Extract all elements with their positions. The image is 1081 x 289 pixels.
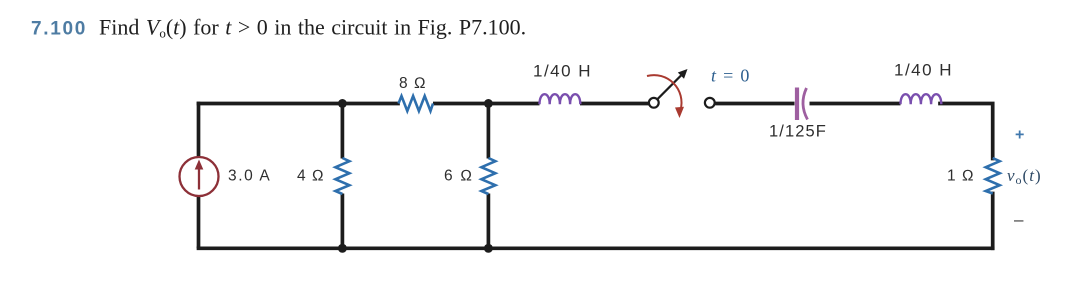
- wire top between capacitor and inductor L2: [810, 102, 901, 106]
- wire bottom rail: [199, 246, 993, 250]
- svg-text:6 Ω: 6 Ω: [444, 168, 474, 185]
- wire 6ohm branch lower: [487, 194, 491, 249]
- svg-text:t = 0: t = 0: [711, 66, 751, 86]
- svg-text:vo(t): vo(t): [1007, 166, 1042, 187]
- inductor L1 1/40 H: [540, 94, 581, 104]
- wire left below current source: [197, 197, 201, 249]
- wire top-left segment: [199, 102, 399, 106]
- svg-text:1/40 H: 1/40 H: [533, 62, 592, 81]
- svg-text:1/40 H: 1/40 H: [894, 61, 953, 80]
- wire top-right corner segment: [940, 104, 993, 159]
- svg-text:+: +: [1015, 127, 1024, 144]
- resistor 8ohm: [399, 96, 434, 111]
- svg-text:–: –: [1014, 210, 1024, 229]
- wire top between switch and capacitor: [715, 102, 794, 106]
- svg-text:7.100: 7.100: [31, 18, 87, 39]
- switch t=0: [647, 69, 715, 118]
- resistor 1ohm: [986, 158, 1000, 194]
- wire top between L1 and switch: [580, 102, 649, 106]
- wire right below 1ohm resistor: [991, 194, 995, 249]
- node dot top of 4ohm branch: [338, 99, 347, 108]
- node dot top of 6ohm branch: [484, 99, 493, 108]
- svg-text:1/125F: 1/125F: [769, 123, 827, 141]
- svg-text:3.0 A: 3.0 A: [228, 168, 271, 185]
- svg-text:1 Ω: 1 Ω: [947, 168, 975, 185]
- resistor 4ohm: [335, 158, 349, 194]
- current source 3.0 A: [180, 157, 219, 196]
- inductor L2 1/40 H: [901, 94, 942, 104]
- svg-text:4 Ω: 4 Ω: [297, 168, 325, 185]
- wire 4ohm branch upper: [341, 104, 345, 159]
- resistor 6ohm: [481, 158, 495, 194]
- problem title 7.100: [31, 14, 526, 40]
- wire top between 8ohm and inductor L1: [433, 102, 540, 106]
- node dot bottom of 4ohm branch: [338, 244, 347, 253]
- capacitor 1/125F: [797, 88, 808, 121]
- wire 6ohm branch upper: [487, 104, 491, 159]
- svg-text:8 Ω: 8 Ω: [399, 75, 427, 92]
- node dot bottom of 6ohm branch: [484, 244, 493, 253]
- wire 4ohm branch lower: [341, 194, 345, 249]
- wire left above current source: [197, 104, 201, 158]
